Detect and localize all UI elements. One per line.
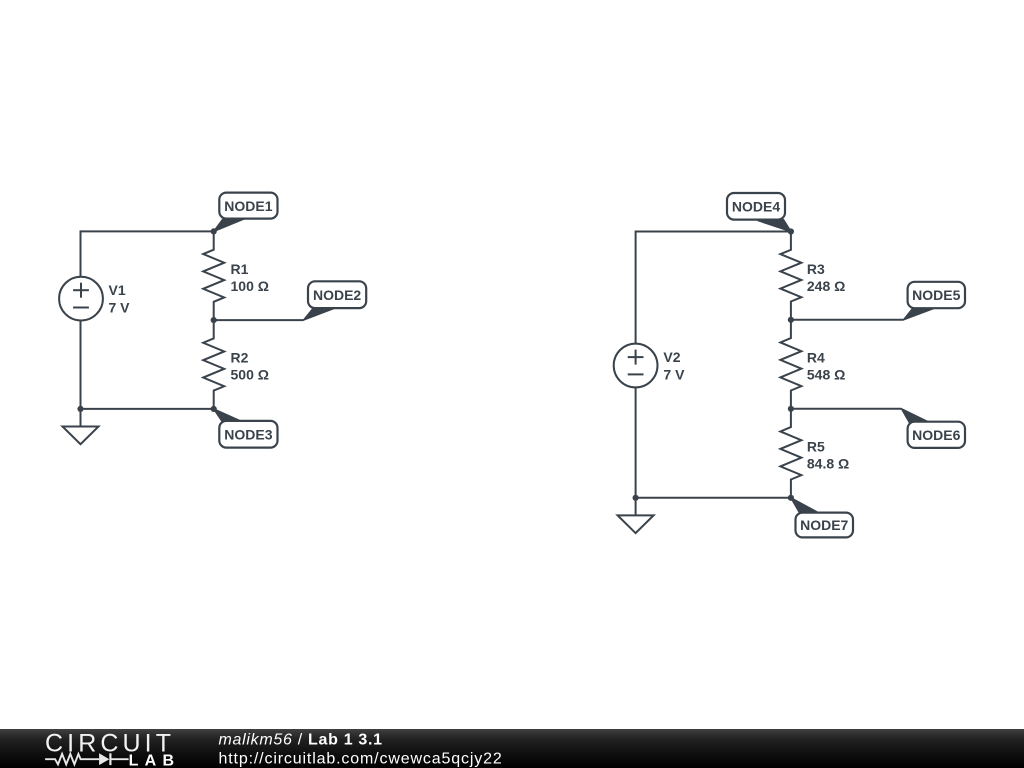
svg-text:NODE6: NODE6 bbox=[912, 427, 960, 443]
svg-text:malikm56 / Lab 1 3.1: malikm56 / Lab 1 3.1 bbox=[219, 731, 383, 748]
svg-text:548 Ω: 548 Ω bbox=[807, 367, 845, 383]
svg-text:LAB: LAB bbox=[129, 752, 181, 768]
svg-text:248 Ω: 248 Ω bbox=[807, 278, 845, 294]
svg-text:NODE1: NODE1 bbox=[224, 198, 272, 214]
svg-text:100 Ω: 100 Ω bbox=[231, 278, 269, 294]
svg-text:NODE5: NODE5 bbox=[912, 287, 960, 303]
svg-text:http://circuitlab.com/cwewca5q: http://circuitlab.com/cwewca5qcjy22 bbox=[219, 751, 503, 768]
svg-text:R2: R2 bbox=[231, 350, 249, 366]
svg-text:V1: V1 bbox=[109, 282, 126, 298]
svg-text:R1: R1 bbox=[231, 261, 249, 277]
svg-text:NODE2: NODE2 bbox=[313, 287, 361, 303]
svg-text:R5: R5 bbox=[807, 439, 825, 455]
svg-text:R3: R3 bbox=[807, 261, 825, 277]
svg-text:7 V: 7 V bbox=[109, 300, 131, 316]
svg-text:R4: R4 bbox=[807, 350, 825, 366]
svg-text:NODE7: NODE7 bbox=[800, 517, 848, 533]
svg-text:500 Ω: 500 Ω bbox=[231, 367, 269, 383]
svg-text:V2: V2 bbox=[663, 349, 680, 365]
svg-text:NODE4: NODE4 bbox=[732, 199, 780, 215]
svg-text:7 V: 7 V bbox=[663, 367, 685, 383]
svg-text:NODE3: NODE3 bbox=[224, 426, 272, 442]
svg-text:84.8 Ω: 84.8 Ω bbox=[807, 456, 849, 472]
